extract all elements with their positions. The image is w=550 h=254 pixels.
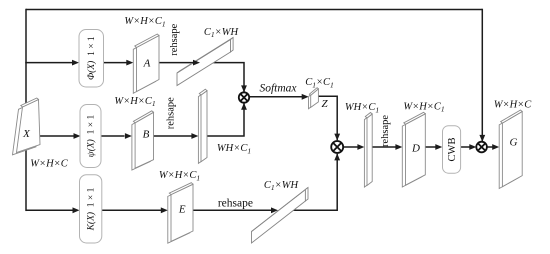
conv box psi(X) 1x1	[80, 105, 101, 168]
feature map B	[132, 111, 154, 170]
wire: multiply1 to softmax to Z	[249, 96, 302, 98]
feature map A	[133, 34, 159, 93]
arrowhead into top plank	[192, 62, 195, 64]
multiply op 1 (A x B)	[239, 92, 249, 102]
svg-text:K(X) 1 × 1: K(X) 1 × 1	[86, 187, 97, 231]
svg-text:CWB: CWB	[447, 138, 458, 162]
wire: branch to phi conv	[25, 62, 72, 64]
matrix WHxC1 tall sheet	[198, 89, 207, 163]
svg-text:G: G	[510, 137, 518, 149]
svg-text:WH×C1​: WH×C1​	[217, 143, 251, 155]
svg-text:X: X	[22, 128, 31, 140]
svg-text:C1​×WH: C1​×WH	[264, 180, 300, 192]
svg-text:D: D	[411, 142, 420, 154]
svg-text:W×H×C1​: W×H×C1​	[403, 101, 444, 113]
conv box K(X) 1x1	[80, 175, 102, 243]
svg-text:rehsape: rehsape	[169, 23, 180, 55]
svg-text:Φ(X) 1 × 1: Φ(X) 1 × 1	[86, 36, 97, 80]
feature map X	[13, 98, 41, 155]
wire: K to E	[102, 209, 161, 211]
wire: E to reshape plank bottom	[193, 209, 272, 211]
svg-text:Z: Z	[321, 98, 328, 110]
multiply op 2 (output x X)	[476, 142, 487, 153]
feature map G	[499, 110, 522, 189]
wire: A to reshape plank top	[159, 62, 192, 64]
svg-text:WH×C1​: WH×C1​	[345, 102, 379, 114]
wire: multiply 2 to G	[487, 146, 493, 148]
svg-text:rehsape: rehsape	[218, 197, 253, 209]
svg-text:ψ(X) 1 × 1: ψ(X) 1 × 1	[86, 115, 97, 158]
reshape plank C1xWH bottom	[252, 188, 309, 244]
svg-text:B: B	[143, 128, 150, 140]
svg-text:W×H×C1​: W×H×C1​	[124, 16, 165, 28]
wire: psi to B	[101, 135, 125, 137]
wire: top feedback X to multiply (horizontal)	[26, 9, 482, 11]
wire: tall sheet to multiply 1 (corner up)	[207, 103, 244, 136]
svg-text:rehsape: rehsape	[380, 115, 391, 147]
wire: left vertical bus lower part	[25, 150, 27, 212]
svg-text:E: E	[178, 203, 186, 215]
svg-text:W×H×C: W×H×C	[30, 158, 69, 169]
wire: B to tall sheet WHxC1	[154, 135, 192, 137]
matrix WHxC1 tall sheet 2	[364, 113, 372, 188]
svg-text:W×H×C1​: W×H×C1​	[114, 96, 155, 108]
wire: X to psi conv	[40, 135, 74, 137]
conv box phi(X) 1x1	[79, 30, 104, 88]
feature map E	[168, 183, 193, 244]
svg-text:Softmax: Softmax	[259, 83, 297, 95]
wire: left vertical bus upper part	[25, 9, 27, 107]
wire: plank bottom to multiply 3 (corner up)	[294, 154, 338, 211]
wire: branch to K conv	[26, 209, 73, 211]
feature map D	[402, 112, 425, 187]
svg-text:A: A	[143, 58, 151, 70]
reshape plank C1xWH top	[177, 38, 233, 86]
svg-text:W×H×C: W×H×C	[494, 100, 533, 111]
matrix Z	[309, 88, 319, 109]
wire: feedback vertical down to multiply near G	[481, 9, 483, 141]
arrowhead into bottom plank	[272, 209, 273, 211]
svg-text:C1​×WH: C1​×WH	[204, 27, 240, 39]
wire: plank to multiply 1 (corner)	[213, 63, 244, 92]
CWB block	[443, 126, 461, 174]
wire: tall sheet 2 to D	[372, 146, 396, 148]
svg-text:rehsape: rehsape	[166, 97, 177, 129]
wire: D to CWB	[425, 146, 435, 148]
wire: Z to multiply 3 (corner down)	[318, 96, 337, 140]
wire: phi to A	[104, 62, 127, 64]
svg-text:C1​×C1​: C1​×C1​	[305, 77, 334, 89]
multiply op 3 (Z x E)	[331, 141, 343, 153]
wire: multiply3 to tall sheet 2	[343, 146, 358, 148]
wire: CWB to multiply 2	[461, 146, 470, 148]
svg-text:W×H×C1​: W×H×C1​	[159, 170, 200, 182]
